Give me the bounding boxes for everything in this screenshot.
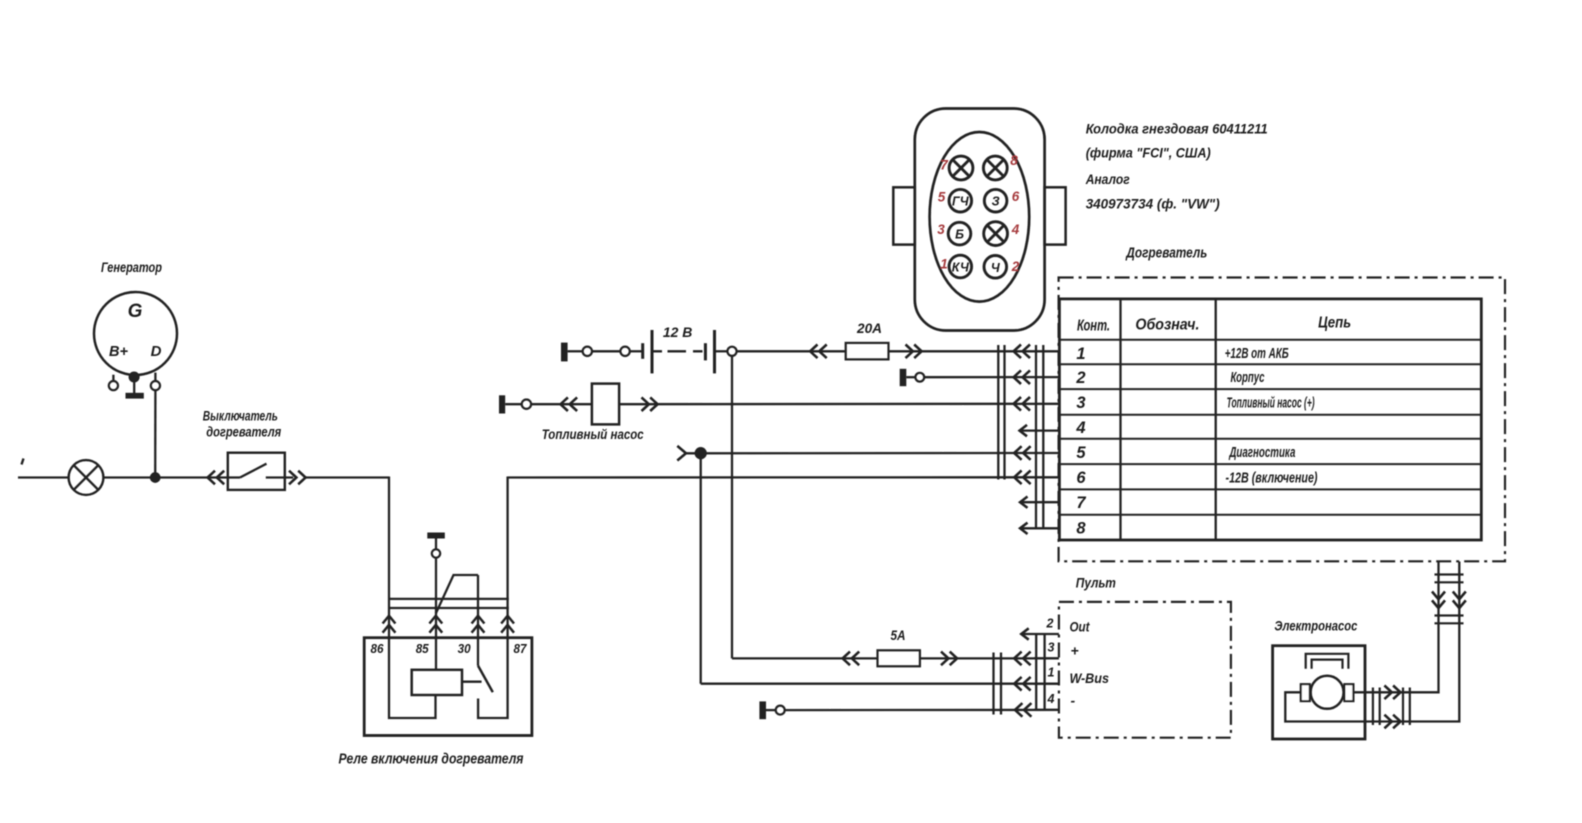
wire: battery vertical down to pult plus row [731,356,733,659]
wire: lamp to switch [103,476,227,478]
svg-text:Конт.: Конт. [1077,318,1110,335]
ground above relay pin 85 [427,533,445,539]
svg-text:6: 6 [1012,189,1020,204]
hose arrows on risers [1432,592,1445,609]
svg-text:З: З [992,195,1000,209]
heater harness strip right [1035,345,1037,529]
battery feed terminal bar [561,343,568,362]
wire battery eye to fuse 20A and heater row 1 [737,350,846,352]
hose hatch marks at pump outlet [1373,688,1380,726]
pump handle bracket [1306,654,1349,669]
wire: external lead into lamp [18,476,69,478]
svg-text:Обознач.: Обознач. [1135,317,1199,334]
svg-text:-12В (включение): -12В (включение) [1226,470,1318,487]
svg-text:(фирма "FCI", США): (фирма "FCI", США) [1086,145,1211,161]
table row lines [1059,340,1481,515]
svg-text:Out: Out [1070,619,1091,635]
pin 3 socket Б [948,222,971,245]
pump motor armature [1311,676,1344,709]
pult Out stub arrow [1021,628,1028,639]
heater row 4 stub arrow and wire [1020,425,1027,436]
jumper wire pin 85 area to pin 30 [436,575,478,614]
svg-text:+12В от АКБ: +12В от АКБ [1225,345,1289,362]
svg-text:Колодка гнездовая 60411211: Колодка гнездовая 60411211 [1086,121,1268,137]
pin 7 socket [949,156,973,180]
connector arrows out of switch [289,471,306,485]
svg-text:1: 1 [1048,666,1055,680]
pin 8 socket [983,156,1007,180]
connector note text [1085,121,1268,212]
hose arrows top line [1384,686,1400,700]
pult signal labels [1070,619,1110,709]
wire: switch to relay pin 86 drop [306,476,389,478]
pin 5 socket ГЧ [949,189,972,212]
hose hatch marks on risers upper [1435,575,1464,583]
svg-text:Цепь: Цепь [1318,315,1351,332]
svg-text:8: 8 [1076,520,1086,538]
battery dashed middle [652,350,703,352]
svg-text:-: - [1071,693,1076,709]
heater row 8 stub arrow and wire [1020,523,1027,534]
svg-text:+: + [1071,643,1079,659]
wire to battery [568,350,583,352]
svg-text:2: 2 [1011,259,1020,274]
table column lines [1119,299,1121,540]
relay harness strip [388,598,509,600]
svg-text:W-Bus: W-Bus [1070,670,1110,686]
svg-text:Ч: Ч [991,261,1001,275]
svg-text:12 В: 12 В [663,324,693,340]
relay coil to contact wire [462,681,482,683]
generator D terminal [154,373,156,381]
battery GB 12V cells [643,330,715,373]
svg-text:B+: B+ [109,343,128,360]
heater row 7 stub arrow and wire [1020,497,1027,508]
wire: pult plus row with fuse 5A [732,657,878,659]
arrows after fuse 5A [941,652,957,666]
relay pin 86 internal wire [389,638,436,718]
switch SA Выключатель догревателя [228,453,285,490]
connector left tab [893,187,915,244]
arrows after fuel pump [642,397,658,411]
hose hatch marks on risers lower [1435,616,1464,624]
wire [630,350,643,352]
svg-text:Диагностика: Диагностика [1228,444,1295,461]
heater unit dash-dot enclosure [1059,278,1505,562]
svg-text:4: 4 [1011,222,1020,237]
connector inner oval [930,132,1030,302]
wire: generator D terminal down to junction [154,390,156,477]
svg-text:Топливный насос: Топливный насос [542,426,644,442]
svg-text:1: 1 [940,257,948,272]
fuse F2 5A [878,650,920,666]
svg-text:Корпус: Корпус [1231,369,1265,386]
svg-text:4: 4 [1047,692,1055,706]
relay coil [412,670,462,695]
node: junction of generator D wire and main wire [151,473,159,481]
pult pin numbers [1046,617,1055,707]
terminal eye 1 [583,347,592,356]
hose hatch marks second set [1403,688,1410,726]
svg-text:6: 6 [1076,469,1086,487]
svg-text:догревателя: догревателя [206,425,281,440]
mark: lead continuation tick [22,459,24,465]
svg-text:3: 3 [1048,641,1055,655]
svg-text:30: 30 [458,641,472,656]
wire row 5 Диагностика to table [686,452,1059,455]
svg-text:7: 7 [1076,494,1086,512]
svg-text:4: 4 [1075,419,1085,437]
fuel pump M1 [592,384,619,425]
svg-text:КЧ: КЧ [952,261,970,275]
node eye at battery output [727,347,736,356]
pult arrows rows +, W-Bus, minus [1014,652,1031,717]
body ground terminal for heater row 2 [900,369,907,386]
svg-text:Аналог: Аналог [1085,171,1130,187]
fuse F1 20A [846,343,889,360]
svg-text:5: 5 [1076,444,1086,462]
red pin numbers [937,153,1020,274]
terminal eye fuel pump [522,400,531,409]
svg-text:3: 3 [937,222,945,237]
socket connector X1 body [915,109,1045,331]
terminal eye pult minus [776,706,785,715]
diagnostics branch fork [677,446,686,461]
pin 4 socket [984,222,1008,246]
relay pin labels [371,641,528,656]
wire: pult minus row [785,709,1059,711]
svg-text:8: 8 [1010,153,1018,168]
svg-text:5А: 5А [891,627,906,643]
svg-text:Б: Б [955,228,964,242]
wire battery to node eye [715,350,728,352]
svg-text:2: 2 [1046,617,1054,631]
wire: junction down to pult W-Bus row [700,453,702,684]
svg-text:ГЧ: ГЧ [952,195,970,209]
wire row 3 fuel pump to table [619,403,1059,406]
generator terminal labels [109,301,162,360]
arrows before fuse 5A [843,652,860,666]
table header labels [1077,315,1351,335]
pult minus terminal bar [759,701,766,719]
relay pin arrows [383,616,514,633]
node: diagnostics junction to W-Bus [696,448,706,458]
relay contact blade from pin 30 [478,666,493,693]
svg-text:G: G [128,301,143,322]
wire [592,350,621,352]
relay pin 87 internal wire [478,638,508,718]
label Выключатель догревателя [203,409,281,440]
svg-text:86: 86 [371,641,385,656]
wire: pult W-Bus row [701,683,1059,685]
pult pin row lines [1021,633,1059,635]
table pin numbers [1075,345,1086,538]
arrows after fuse 20A [906,345,922,359]
pump motor leads [1285,562,1459,722]
wire into fuel pump [531,403,592,405]
svg-text:D: D [151,343,162,360]
svg-text:Генератор: Генератор [101,259,162,275]
pult dash-dot enclosure [1059,602,1231,738]
arrows into fuel pump [561,397,578,411]
terminal eye row 2 [915,373,924,382]
svg-text:85: 85 [416,641,430,656]
heater pin table frame [1059,299,1481,540]
pin 2 socket Ч [984,255,1007,278]
svg-text:5: 5 [938,190,946,205]
wire: ground to relay pin 85 [435,558,437,670]
electric pump U1 enclosure [1273,646,1365,739]
hose arrows bottom line [1384,715,1400,729]
pult harness strip outer [992,653,994,715]
svg-text:Электронасос: Электронасос [1274,618,1357,634]
svg-text:87: 87 [514,641,528,656]
pult harness strip [1035,634,1037,710]
arrows before fuse 20A [810,345,827,359]
wire row 2 Корпус to table [924,376,1058,378]
pump brushes [1301,684,1310,701]
svg-text:1: 1 [1076,345,1085,363]
svg-text:Пульт: Пульт [1076,575,1116,591]
table circuit names [1225,345,1318,487]
indicator lamp HL [69,460,104,495]
svg-text:2: 2 [1075,369,1085,387]
svg-text:Топливный насос (+): Топливный насос (+) [1227,395,1315,412]
svg-text:3: 3 [1076,394,1085,412]
svg-text:Выключатель: Выключатель [203,409,278,424]
fuel pump supply terminal bar [499,395,505,413]
generator G1 body [94,292,177,375]
connector arrows into switch [208,471,225,485]
heater row arrows 1,2,3,5,6 [1014,345,1031,485]
ground at generator [130,373,139,382]
wire: relay pin 87 riser and long wire to heater row 6 [506,477,508,638]
pin 1 socket КЧ [949,255,972,278]
svg-text:340973734 (ф. "VW"): 340973734 (ф. "VW") [1086,196,1220,212]
pin 6 socket З [984,189,1007,212]
svg-text:Догреватель: Догреватель [1125,246,1208,262]
generator B+ terminal [112,375,114,381]
connector right tab [1045,187,1066,244]
heater harness strip left [997,345,999,480]
relay K1 Реле включения догревателя [364,638,532,736]
svg-text:20А: 20А [856,320,882,336]
svg-text:Реле включения догревателя: Реле включения догревателя [339,751,524,768]
terminal eye 2 [620,347,629,356]
